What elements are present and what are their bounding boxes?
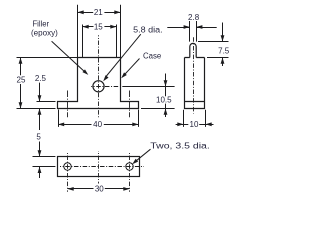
dim 40 extension lines — [59, 110, 139, 127]
front view case outline — [58, 58, 139, 109]
bottom view vertical centerline — [98, 151, 100, 184]
hole center height projection line — [122, 86, 174, 88]
svg-text:5: 5 — [36, 132, 41, 141]
left hole centerline — [67, 152, 69, 192]
dim 5 arrows — [38, 142, 42, 179]
side view centerline — [193, 36, 195, 114]
5.8 dia leader arrow — [103, 34, 141, 81]
svg-text:5.8 dia.: 5.8 dia. — [133, 25, 163, 34]
front vertical centerline — [98, 35, 100, 117]
svg-text:2.5: 2.5 — [35, 74, 47, 83]
right hole 3.5 dia — [126, 163, 133, 170]
svg-text:21: 21 — [94, 8, 103, 17]
svg-text:10.5: 10.5 — [156, 96, 172, 105]
filler leader arrow — [52, 41, 89, 75]
dim 10 arrows — [176, 122, 214, 126]
svg-text:40: 40 — [93, 120, 102, 129]
dim 30 line and arrows — [68, 187, 130, 191]
dim 2.5 flange-top extension line — [37, 101, 56, 103]
svg-text:(epoxy): (epoxy) — [31, 28, 58, 37]
dim 5 extension lines — [33, 157, 56, 167]
dim 2.8 extension lines — [190, 21, 197, 42]
dim 21 extension lines — [78, 5, 121, 58]
dim 10 extension lines — [184, 110, 206, 127]
dim 7.5 arrows — [221, 23, 225, 67]
front horizontal centerline — [91, 86, 118, 88]
dim 10.5 bottom extension line — [141, 108, 175, 110]
dim 2.5 arrows — [38, 83, 42, 130]
dim 7.5 extension lines — [198, 42, 229, 58]
case leader arrow — [121, 59, 139, 79]
sensing hole circle 5.8 dia — [93, 81, 104, 92]
svg-text:15: 15 — [94, 22, 103, 31]
side view pin outline — [190, 43, 196, 57]
svg-text:7.5: 7.5 — [218, 46, 230, 55]
dim 15 extension lines — [83, 25, 117, 58]
svg-text:25: 25 — [17, 75, 26, 84]
dim 10.5 line and arrows — [164, 74, 168, 118]
bottom view outline — [58, 157, 140, 177]
dim 2.8 arrows — [167, 25, 216, 29]
left mounting hole centerline front — [67, 91, 69, 118]
left hole 3.5 dia — [64, 163, 71, 170]
dim 15 line and arrows — [83, 25, 117, 29]
dim 21 line and arrows — [78, 10, 121, 14]
dim 40 line and arrows — [58, 123, 139, 127]
svg-text:Case: Case — [143, 52, 162, 61]
svg-text:30: 30 — [95, 184, 104, 193]
filler epoxy label — [31, 20, 58, 38]
dim 25 line and arrows — [19, 58, 23, 109]
right mounting hole centerline front — [129, 91, 131, 118]
side view flange top edge — [185, 101, 205, 103]
dim 25 bottom extension line — [17, 108, 56, 110]
dim 25 top extension line — [17, 57, 78, 59]
right hole centerline — [129, 152, 131, 192]
two 3.5 dia leader arrow — [132, 149, 150, 164]
svg-text:Two, 3.5 dia.: Two, 3.5 dia. — [150, 141, 210, 150]
svg-text:10: 10 — [190, 120, 199, 129]
bottom view horizontal centerline — [60, 166, 144, 168]
svg-text:2.8: 2.8 — [188, 13, 200, 22]
side view body outline — [185, 58, 205, 109]
